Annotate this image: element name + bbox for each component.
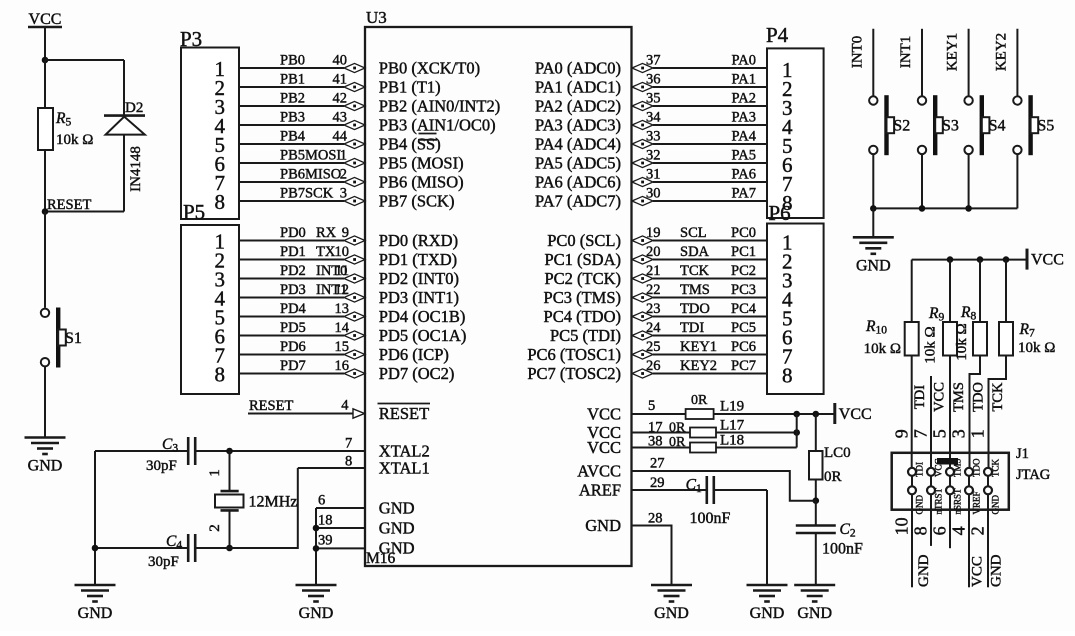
svg-text:VREF: VREF	[972, 491, 982, 514]
ground (C1)	[747, 584, 788, 587]
svg-text:TDI: TDI	[912, 385, 928, 409]
svg-text:PA5: PA5	[732, 148, 756, 164]
svg-text:PA1 (ADC1): PA1 (ADC1)	[535, 78, 621, 97]
svg-text:RESET: RESET	[47, 197, 91, 213]
wire D2 to RESET node	[45, 211, 124, 213]
wire U3 PA2 to P4-3	[653, 105, 767, 107]
svg-text:GND: GND	[585, 516, 621, 535]
svg-text:PC6 (TOSC1): PC6 (TOSC1)	[527, 345, 621, 364]
wire P5-1 to U3 (PD0)	[239, 240, 344, 242]
junction AVCC/C2	[813, 497, 820, 504]
wire GND pin39	[316, 547, 365, 549]
U3 pin marker PB2	[344, 101, 365, 110]
U3 pin marker PA7	[632, 196, 653, 205]
svg-text:U3: U3	[366, 8, 387, 27]
junction XTAL1 node	[226, 545, 233, 552]
wire U3 PC0 to P6-1	[653, 240, 767, 242]
wire R9 to J1 pin5 (TMS)	[949, 356, 951, 468]
ground (C2)	[794, 584, 835, 587]
wire rail to R9	[949, 260, 951, 322]
svg-text:PB1: PB1	[280, 72, 305, 88]
U3 pin marker PD7	[344, 369, 365, 378]
svg-text:PA4: PA4	[732, 129, 757, 145]
svg-text:PC1 (SDA): PC1 (SDA)	[544, 250, 621, 269]
connector J1 body (JTAG)	[892, 453, 1009, 510]
wire J1 column pin 1/2	[987, 468, 989, 588]
wire L19 to VCC	[714, 413, 835, 415]
junction node RESET	[42, 208, 49, 215]
J1 pin 10	[908, 486, 916, 494]
svg-text:34: 34	[646, 110, 661, 126]
wire U3 PA1 to P4-2	[653, 86, 767, 88]
svg-text:PB2 (AIN0/INT2): PB2 (AIN0/INT2)	[379, 97, 500, 116]
svg-text:PB0 (XCK/T0): PB0 (XCK/T0)	[379, 59, 480, 78]
svg-text:S5: S5	[1037, 118, 1054, 135]
wire S2 to ground rail	[872, 154, 874, 208]
svg-text:4: 4	[341, 398, 349, 414]
svg-text:nSRST: nSRST	[953, 488, 963, 515]
U3 pin marker PA6	[632, 177, 653, 186]
svg-text:43: 43	[333, 110, 348, 126]
junction VCC rail 2 (LC0)	[813, 411, 820, 418]
wire P3-5 to U3 (PB4)	[239, 143, 344, 145]
wire P5-2 to U3 (PD1)	[239, 259, 344, 261]
wire S4 to ground rail	[968, 154, 970, 208]
svg-text:KEY2: KEY2	[680, 358, 717, 374]
U3 pin marker PC7	[632, 369, 653, 378]
svg-text:36: 36	[646, 72, 661, 88]
resistor L19 0R	[686, 409, 714, 419]
svg-text:0R: 0R	[691, 393, 708, 408]
wire XTAL1 down to C4/crystal row	[195, 468, 298, 548]
svg-text:PB0: PB0	[280, 53, 305, 69]
svg-text:PC5: PC5	[731, 320, 756, 336]
svg-text:42: 42	[333, 91, 348, 107]
wire J1 column pin 5/6	[949, 468, 951, 548]
svg-text:2: 2	[207, 524, 223, 532]
svg-text:PD1: PD1	[280, 244, 306, 260]
svg-text:24: 24	[646, 320, 661, 336]
wire rail to ground	[872, 208, 874, 237]
wire P3-6 to U3 (PB5MOSI)	[239, 162, 344, 164]
svg-text:PB5MOSI: PB5MOSI	[280, 148, 341, 164]
wire J1 column pin 9/10	[911, 468, 913, 588]
svg-text:PA3: PA3	[732, 110, 756, 126]
wire D2 anode down	[123, 135, 125, 212]
wire U3 PA3 to P4-4	[653, 124, 767, 126]
svg-text:39: 39	[318, 533, 333, 549]
svg-text:PC0: PC0	[731, 225, 756, 241]
connector P3 body	[181, 48, 239, 220]
J1 pin 9	[908, 468, 916, 476]
svg-text:6: 6	[318, 493, 325, 509]
svg-text:PC4 (TDO): PC4 (TDO)	[544, 307, 621, 326]
svg-text:PB7 (SCK): PB7 (SCK)	[379, 192, 455, 211]
svg-text:PD3: PD3	[280, 282, 306, 298]
svg-text:3: 3	[949, 429, 969, 438]
junction C4/ground rail	[92, 545, 99, 552]
svg-text:GND: GND	[379, 519, 415, 538]
wire rail to R10	[911, 260, 913, 322]
svg-text:PB2: PB2	[280, 91, 305, 107]
junction rail/S4	[965, 205, 972, 212]
power symbol VCC (JTAG)	[1026, 249, 1029, 270]
ground (crystal)	[75, 584, 116, 587]
resistor R10	[905, 322, 919, 356]
svg-text:21: 21	[646, 263, 661, 279]
svg-text:AREF: AREF	[579, 481, 621, 500]
svg-text:TDI: TDI	[680, 320, 704, 336]
svg-text:XTAL1: XTAL1	[379, 459, 430, 478]
svg-text:TCK: TCK	[680, 263, 710, 279]
svg-text:28: 28	[648, 511, 663, 527]
U3 pin marker PA4	[632, 139, 653, 148]
wire LC0 to AVCC node	[815, 480, 817, 501]
svg-text:VCC: VCC	[29, 11, 62, 28]
wire VCC stub to J1 pin7	[930, 376, 932, 468]
svg-text:4: 4	[949, 526, 969, 535]
wire KEY2 to S5	[1016, 29, 1018, 97]
svg-text:25: 25	[646, 339, 661, 355]
svg-text:RESET: RESET	[249, 398, 293, 414]
U3 pin marker PA2	[632, 101, 653, 110]
svg-text:PC0 (SCL): PC0 (SCL)	[547, 231, 621, 250]
U3 pin marker PC0	[632, 236, 653, 245]
svg-text:SDA: SDA	[680, 244, 710, 260]
capacitor C1 100nF	[705, 476, 708, 504]
U3 pin marker PC1	[632, 255, 653, 264]
svg-text:37: 37	[646, 53, 661, 69]
svg-text:19: 19	[646, 225, 661, 241]
wire VCC down to LC0	[815, 414, 817, 451]
svg-text:100nF: 100nF	[690, 510, 731, 527]
U3 pin marker PD1	[344, 255, 365, 264]
wire U3 PA7 to P4-8	[653, 200, 767, 202]
wire XTAL2 (pin7) to C3/crystal	[195, 450, 365, 452]
svg-text:TCK: TCK	[990, 382, 1006, 412]
resistor R8	[973, 322, 987, 356]
wire switch ground rail	[873, 207, 1017, 209]
wire U3 PC5 to P6-6	[653, 335, 767, 337]
wire U3 PC6 to P6-7	[653, 354, 767, 356]
wire C4 to XTAL1 column	[195, 547, 298, 549]
pushbutton switch S4	[964, 96, 972, 104]
svg-text:KEY1: KEY1	[680, 339, 717, 355]
wire VCC pin17 to L17	[632, 432, 691, 434]
svg-text:PD4 (OC1B): PD4 (OC1B)	[379, 307, 466, 326]
svg-text:5: 5	[930, 429, 950, 438]
svg-text:PC1: PC1	[731, 244, 756, 260]
wire U3 PC4 to P6-5	[653, 316, 767, 318]
capacitor C4 30pF	[187, 534, 190, 562]
wire P3-1 to U3 (PB0)	[239, 67, 344, 69]
connector P5 body	[181, 225, 239, 394]
wire P3-2 to U3 (PB1)	[239, 86, 344, 88]
svg-text:10k Ω: 10k Ω	[1018, 340, 1055, 356]
ground (reset branch)	[25, 436, 66, 439]
overline over SS (PB4 row)	[418, 139, 437, 141]
wire rail to R8	[979, 260, 981, 322]
svg-text:KEY1: KEY1	[945, 33, 961, 71]
svg-text:GND: GND	[28, 458, 63, 475]
wire S1 to ground	[44, 366, 46, 437]
J1 pin 2	[984, 486, 992, 494]
wire VCC vertical tie	[796, 414, 798, 448]
wire U3 PC3 to P6-4	[653, 297, 767, 299]
wire L18 to VCC node	[716, 447, 797, 449]
ground (U3 pin28)	[651, 584, 692, 587]
svg-text:VCC: VCC	[932, 382, 948, 412]
wire crystal pin2 down	[229, 510, 231, 548]
svg-text:D2: D2	[125, 100, 143, 116]
svg-text:GND: GND	[299, 605, 334, 622]
U3 pin marker PB6	[344, 177, 365, 186]
svg-text:PB7SCK: PB7SCK	[280, 186, 334, 202]
svg-text:PC3 (TMS): PC3 (TMS)	[544, 288, 621, 307]
svg-text:PB4 (SS): PB4 (SS)	[379, 135, 441, 154]
wire U3 PC7 to P6-8	[653, 373, 767, 375]
resistor L18 0R	[690, 443, 716, 453]
svg-text:TDO: TDO	[972, 458, 982, 477]
svg-text:VCC: VCC	[587, 405, 621, 424]
svg-text:VCC: VCC	[839, 406, 872, 423]
svg-text:PB6MISO: PB6MISO	[280, 167, 341, 183]
pushbutton switch S3	[918, 96, 926, 104]
wire GND pin6	[316, 507, 365, 509]
U3 pin marker PD0	[344, 236, 365, 245]
svg-text:RX: RX	[316, 225, 337, 241]
svg-text:PA1: PA1	[732, 72, 756, 88]
J1 pin 5	[946, 468, 954, 476]
svg-text:M16: M16	[366, 550, 396, 567]
svg-text:10k Ω: 10k Ω	[56, 132, 93, 148]
wire U3 PA5 to P4-6	[653, 162, 767, 164]
wire C1 to ground drop	[715, 489, 767, 491]
U3 pin marker PB0	[344, 63, 365, 72]
svg-text:1: 1	[968, 429, 988, 438]
wire R7 to J1 pin1 (TCK)	[989, 356, 1007, 468]
wire GND bus down	[315, 508, 317, 585]
svg-text:23: 23	[646, 301, 661, 317]
svg-text:10k Ω: 10k Ω	[923, 326, 939, 363]
wire P5-8 to U3 (PD7)	[239, 373, 344, 375]
svg-text:10k Ω: 10k Ω	[954, 323, 970, 360]
capacitor C3 30pF	[187, 437, 190, 465]
svg-text:L17: L17	[720, 418, 745, 434]
wire rail to R7	[1005, 260, 1007, 322]
U3 pin marker PC6	[632, 350, 653, 359]
wire P5-6 to U3 (PD5)	[239, 335, 344, 337]
svg-text:J1: J1	[1016, 446, 1029, 462]
svg-text:1: 1	[340, 148, 347, 164]
U3 pin marker PA0	[632, 63, 653, 72]
svg-text:L18: L18	[720, 433, 744, 449]
svg-text:PC3: PC3	[731, 282, 756, 298]
wire junction to R5	[44, 60, 46, 108]
wire U3 PC1 to P6-2	[653, 259, 767, 261]
svg-text:P5: P5	[183, 200, 205, 224]
svg-text:6: 6	[930, 526, 950, 535]
J1 key mark	[937, 458, 958, 465]
svg-text:TDO: TDO	[971, 382, 987, 412]
svg-text:18: 18	[318, 513, 333, 529]
junction GND pins	[313, 525, 320, 532]
svg-text:2: 2	[968, 526, 988, 535]
wire RESET to U3 pin 4	[248, 413, 353, 415]
svg-text:GND: GND	[915, 495, 925, 515]
wire P3-8 to U3 (PB7SCK)	[239, 200, 344, 202]
svg-text:PD3 (INT1): PD3 (INT1)	[379, 288, 459, 307]
wire C3 row	[95, 450, 188, 452]
junction rail/R9	[947, 256, 954, 263]
wire P5-7 to U3 (PD6)	[239, 354, 344, 356]
svg-text:TMS: TMS	[951, 382, 967, 412]
svg-text:PD0: PD0	[280, 225, 306, 241]
svg-text:VCC: VCC	[587, 438, 621, 457]
svg-text:12MHz: 12MHz	[249, 494, 298, 511]
svg-text:INT1: INT1	[898, 36, 914, 69]
U3 pin marker PB1	[344, 82, 365, 91]
pushbutton switch S5	[1013, 96, 1021, 104]
wire KEY1 to S4	[968, 29, 970, 97]
svg-text:100nF: 100nF	[822, 541, 863, 558]
junction rail/R8	[977, 256, 984, 263]
svg-text:INT0: INT0	[849, 36, 865, 69]
svg-text:35: 35	[646, 91, 661, 107]
wire U3 PA4 to P4-5	[653, 143, 767, 145]
svg-text:S3: S3	[942, 118, 959, 135]
wire R8 to J1 pin3 (TDO)	[970, 356, 981, 468]
wire U3 PA0 to P4-1	[653, 67, 767, 69]
resistor R7	[999, 322, 1013, 356]
wire VCC to junction	[44, 27, 46, 60]
U3 pin marker PD2	[344, 274, 365, 283]
svg-text:S2: S2	[893, 118, 910, 135]
svg-text:PD5: PD5	[280, 320, 306, 336]
wire C1 ground drop	[766, 490, 768, 585]
wire L17 to VCC node	[716, 432, 797, 434]
wire U3 PA6 to P4-7	[653, 181, 767, 183]
wire P3-7 to U3 (PB6MISO)	[239, 181, 344, 183]
J1 pin 3	[965, 468, 973, 476]
svg-text:PA2 (ADC2): PA2 (ADC2)	[535, 97, 621, 116]
svg-text:20: 20	[646, 244, 661, 260]
J1 pin 7	[927, 468, 935, 476]
svg-text:44: 44	[333, 129, 348, 145]
svg-text:TX: TX	[316, 244, 336, 260]
U3 pin marker PB5	[344, 158, 365, 167]
pushbutton switch S2	[869, 96, 877, 104]
svg-text:26: 26	[646, 358, 661, 374]
wire INT1 to S3	[921, 29, 923, 97]
wire R5 to RESET node	[44, 150, 46, 212]
wire U3 PC2 to P6-3	[653, 278, 767, 280]
U3 pin marker PB3	[344, 120, 365, 129]
IC U3 body (ATmega16)	[365, 27, 632, 566]
svg-text:TDI: TDI	[915, 462, 925, 477]
svg-text:PA0 (ADC0): PA0 (ADC0)	[535, 59, 621, 78]
svg-text:29: 29	[650, 475, 665, 491]
svg-text:PA7 (ADC7): PA7 (ADC7)	[535, 192, 621, 211]
svg-text:GND: GND	[78, 605, 113, 622]
wire S5 to ground rail	[1016, 154, 1018, 208]
svg-text:PC2: PC2	[731, 263, 756, 279]
svg-text:GND: GND	[654, 605, 689, 622]
power symbol VCC (U3 supply)	[833, 403, 836, 424]
svg-text:PD2 (INT0): PD2 (INT0)	[379, 269, 459, 288]
svg-text:KEY2: KEY2	[993, 33, 1009, 71]
svg-text:PC7 (TOSC2): PC7 (TOSC2)	[527, 364, 621, 383]
U3 pin marker PD6	[344, 350, 365, 359]
svg-text:7: 7	[345, 436, 352, 452]
svg-text:PC2 (TCK): PC2 (TCK)	[544, 269, 621, 288]
svg-text:L19: L19	[720, 399, 744, 415]
svg-text:27: 27	[650, 456, 665, 472]
svg-text:nTRST: nTRST	[934, 487, 944, 514]
junction node (VCC/R5/D2)	[42, 57, 49, 64]
svg-text:IN4148: IN4148	[128, 146, 144, 192]
U3 pin marker PC4	[632, 312, 653, 321]
wire J1 column pin 3/4	[968, 468, 970, 588]
svg-text:PD0 (RXD): PD0 (RXD)	[379, 231, 458, 250]
svg-text:30: 30	[646, 186, 661, 202]
diode D2 (IN4148)	[104, 114, 145, 117]
U3 pin marker PB4	[344, 139, 365, 148]
pushbutton switch S1	[41, 309, 49, 317]
svg-text:33: 33	[646, 129, 661, 145]
wire down to D2	[123, 60, 125, 116]
svg-text:S4: S4	[989, 118, 1006, 135]
svg-text:GND: GND	[750, 605, 785, 622]
U3 pin marker PA1	[632, 82, 653, 91]
wire junction to D2 cathode branch	[45, 59, 124, 61]
svg-text:1: 1	[207, 469, 223, 477]
svg-text:PB1 (T1): PB1 (T1)	[379, 78, 441, 97]
svg-text:8: 8	[782, 191, 793, 215]
svg-text:30pF: 30pF	[148, 554, 179, 570]
svg-text:22: 22	[646, 282, 661, 298]
svg-text:PA0: PA0	[732, 53, 756, 69]
wire VCC pin5 to L19	[632, 413, 686, 415]
wire VCC rail (JTAG pull-ups)	[912, 259, 1027, 261]
svg-text:PD2: PD2	[280, 263, 306, 279]
wire RESET node to S1	[44, 212, 46, 308]
U3 pin marker PA3	[632, 120, 653, 129]
resistor R5	[38, 108, 53, 150]
connector P4 body	[767, 48, 824, 218]
svg-text:PB6 (MISO): PB6 (MISO)	[379, 173, 464, 192]
svg-text:GND: GND	[989, 554, 1005, 587]
svg-text:PB5 (MOSI): PB5 (MOSI)	[379, 154, 464, 173]
junction rail/S3	[919, 205, 926, 212]
svg-text:PD7: PD7	[280, 358, 306, 374]
wire R10 to J1 pin9 (TDI)	[911, 356, 913, 468]
U3 pin marker PD3	[344, 293, 365, 302]
svg-text:TMS: TMS	[680, 282, 710, 298]
U3 pin marker PB7	[344, 196, 365, 205]
junction GND pins 2	[313, 545, 320, 552]
wire S3 to ground rail	[921, 154, 923, 208]
svg-text:8: 8	[911, 526, 931, 535]
svg-text:GND: GND	[991, 495, 1001, 515]
svg-text:10k Ω: 10k Ω	[864, 341, 901, 357]
svg-text:PA4 (ADC4): PA4 (ADC4)	[535, 135, 621, 154]
svg-text:TDO: TDO	[680, 301, 710, 317]
svg-text:LC0: LC0	[824, 445, 851, 461]
wire AVCC pin27 to LC0/C2 node	[632, 471, 816, 501]
svg-text:30pF: 30pF	[146, 458, 177, 474]
svg-text:PD5 (OC1A): PD5 (OC1A)	[379, 326, 467, 345]
